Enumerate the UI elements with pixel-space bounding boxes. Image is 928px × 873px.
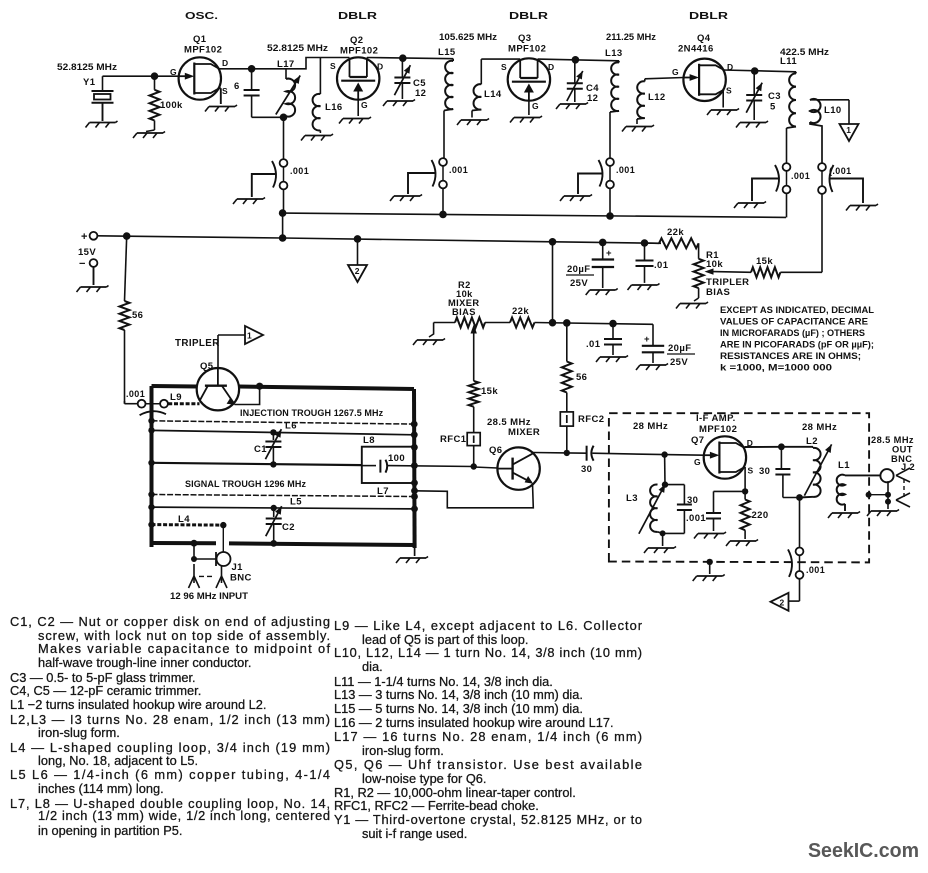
svg-text:iron-slug form.: iron-slug form. — [362, 743, 444, 758]
svg-text:INJECTION TROUGH 1267.5 MHz: INJECTION TROUGH 1267.5 MHz — [240, 408, 384, 418]
svg-text:L8: L8 — [363, 435, 375, 446]
svg-text:220: 220 — [752, 510, 769, 521]
label 422.5 MHz — [780, 47, 829, 58]
trough hatched line upper — [148, 418, 414, 425]
svg-text:12: 12 — [587, 93, 598, 104]
wire Q2 gate to ground — [357, 100, 359, 116]
ground for feedthrough DBLR4 — [734, 179, 780, 209]
feedthrough .001 DBLR3 — [599, 158, 636, 216]
inductor L2 variable — [781, 436, 831, 501]
svg-text:25V: 25V — [570, 278, 588, 289]
svg-text:Q7: Q7 — [691, 435, 704, 446]
svg-text:Q4: Q4 — [697, 33, 711, 44]
svg-text:S: S — [748, 466, 754, 476]
wire B+ distribution bus — [279, 209, 786, 238]
svg-text:G: G — [532, 101, 539, 111]
svg-text:5: 5 — [770, 102, 776, 113]
stage label DBLR 3 — [689, 11, 729, 22]
svg-text:10k: 10k — [706, 259, 723, 270]
wire Q1 drain node — [218, 65, 286, 73]
svg-text:100k: 100k — [160, 100, 183, 111]
svg-text:in opening in partition P5.: in opening in partition P5. — [38, 823, 182, 838]
svg-text:MPF102: MPF102 — [184, 45, 222, 56]
svg-text:L14: L14 — [484, 89, 502, 100]
feedthrough .001 DBLR2 — [432, 158, 469, 214]
inductor line L5 — [148, 497, 414, 512]
label SIGNAL TROUGH 1296 MHz — [185, 479, 306, 489]
svg-text:MIXER: MIXER — [508, 427, 540, 438]
svg-text:C4, C5 — 12-pF ceramic trimmer: C4, C5 — 12-pF ceramic trimmer. — [10, 683, 201, 698]
svg-text:12: 12 — [415, 88, 426, 99]
svg-text:422.5 MHz: 422.5 MHz — [780, 47, 829, 58]
svg-text:105.625 MHz: 105.625 MHz — [439, 32, 497, 43]
ground under R2 — [413, 339, 445, 346]
resistor 15k mixer — [469, 381, 499, 433]
coupling loop box L8 — [362, 435, 415, 483]
svg-text:.01: .01 — [654, 260, 669, 271]
svg-text:15k: 15k — [756, 256, 773, 267]
resistor 56 left — [120, 236, 144, 404]
svg-text:.001: .001 — [616, 165, 635, 175]
ground under C5 — [383, 100, 415, 107]
ground for feedthrough DBLR3 — [560, 174, 603, 202]
wire Q3 gate to ground — [528, 101, 530, 115]
svg-text:C2: C2 — [282, 522, 295, 533]
svg-text:22k: 22k — [667, 227, 684, 238]
wire Q3 source to L14 — [481, 58, 520, 60]
feedthrough .001 output — [788, 498, 825, 579]
svg-text:BNC: BNC — [230, 573, 252, 584]
svg-text:G: G — [361, 100, 368, 110]
capacitor C3 variable 5 — [746, 71, 781, 120]
svg-text:L16 — 2 turns insulated hookup: L16 — 2 turns insulated hookup wire arou… — [334, 715, 614, 730]
svg-text:OUT: OUT — [892, 445, 913, 455]
svg-text:.001: .001 — [686, 513, 706, 524]
wire gate Q7 — [661, 451, 704, 457]
label 1296 MHz INPUT — [170, 591, 248, 601]
choke RFC1 — [440, 433, 480, 467]
wire Q7 drain line — [745, 443, 785, 450]
svg-text:inches (114 mm) long.: inches (114 mm) long. — [38, 781, 164, 796]
inductor L3 variable — [626, 455, 668, 534]
connection triangle 1 down — [840, 124, 859, 141]
svg-text:L17 — 16 turns No. 28 enam, 1/: L17 — 16 turns No. 28 enam, 1/4 inch (6 … — [334, 729, 642, 744]
transistor Q1 MPF102 — [170, 34, 229, 100]
svg-text:DBLR: DBLR — [509, 11, 549, 22]
svg-text:Makes variable capacitance to: Makes variable capacitance to midpoint o… — [38, 641, 330, 656]
connection triangle 1 right — [218, 326, 263, 368]
svg-text:S: S — [222, 86, 228, 96]
svg-text:Y1: Y1 — [83, 77, 96, 88]
IF amplifier shield box dashed — [609, 413, 869, 562]
ground under 15V minus — [77, 286, 109, 293]
wire Q6 collector — [533, 450, 570, 456]
svg-text:L15: L15 — [438, 47, 456, 58]
feedthrough .001 L10 — [818, 163, 851, 272]
svg-text:+: + — [606, 248, 612, 259]
ground under .01 lower — [596, 356, 628, 363]
svg-text:dia.: dia. — [362, 659, 383, 674]
svg-text:.001: .001 — [449, 165, 468, 175]
feedthrough .001 DBLR4 — [775, 163, 810, 217]
capacitor .001 IF — [686, 491, 745, 531]
capacitor 20uF 25V upper — [566, 242, 614, 289]
inductor L13 — [605, 48, 623, 160]
transistor Q3 MPF102 — [501, 33, 555, 111]
svg-text:+: + — [644, 334, 650, 345]
label 52.8125 MHz input — [57, 62, 117, 73]
ground under 20uF upper — [586, 289, 618, 296]
svg-text:−: − — [79, 258, 86, 270]
label L7 — [377, 486, 389, 497]
svg-text:100: 100 — [388, 453, 405, 464]
svg-text:2N4416: 2N4416 — [678, 44, 714, 55]
connector J1 BNC — [191, 525, 252, 583]
transistor Q2 MPF102 — [330, 35, 384, 110]
svg-text:28.5 MHz: 28.5 MHz — [871, 435, 914, 445]
svg-text:ARE IN PICOFARADS (pF OR µµF);: ARE IN PICOFARADS (pF OR µµF); — [720, 340, 874, 350]
wire Q4 drain node — [723, 67, 796, 75]
ground under R1 — [676, 302, 708, 309]
choke RFC2 — [560, 412, 604, 453]
node +15V terminal — [78, 231, 97, 285]
svg-text:22k: 22k — [512, 306, 529, 317]
inductor L12 — [637, 79, 666, 124]
capacitor C1 variable — [254, 429, 281, 467]
inductor L10 — [810, 99, 849, 165]
svg-text:G: G — [170, 67, 177, 77]
ground under J2 — [867, 510, 899, 517]
label 28 MHz left — [633, 421, 668, 432]
ground on IF box bottom — [693, 559, 725, 581]
svg-text:MPF102: MPF102 — [699, 424, 737, 435]
trough right wall — [411, 389, 418, 548]
svg-text:low-noise type for Q6.: low-noise type for Q6. — [362, 771, 486, 786]
resistor 22k upper — [645, 227, 699, 259]
svg-text:TRIPLER: TRIPLER — [175, 338, 220, 349]
label 52.8125 MHz at L17 — [267, 43, 328, 54]
ground under 20uF lower — [636, 364, 668, 371]
svg-text:IN MICROFARADS (µF) ; OTHERS: IN MICROFARADS (µF) ; OTHERS — [720, 328, 865, 338]
capacitor C4 variable 12 — [567, 60, 599, 104]
svg-text:D: D — [377, 62, 384, 72]
svg-text:.001: .001 — [290, 166, 309, 176]
stage label DBLR — [338, 11, 378, 22]
label 211.25 MHz — [606, 32, 656, 43]
svg-text:30: 30 — [687, 495, 698, 506]
svg-text:52.8125 MHz: 52.8125 MHz — [267, 43, 328, 54]
svg-text:VALUES OF CAPACITANCE ARE: VALUES OF CAPACITANCE ARE — [720, 317, 868, 327]
svg-text:L15 — 5 turns No. 14, 3/8 inch: L15 — 5 turns No. 14, 3/8 inch (10 mm) d… — [334, 701, 583, 716]
ground under L1 — [828, 512, 860, 519]
potentiometer R1 10k — [694, 250, 751, 301]
label INJECTION TROUGH 1267.5 MHz — [240, 408, 384, 418]
capacitor 30 at L2 — [759, 447, 800, 498]
trough bottom wall — [152, 540, 415, 547]
wire crystal to gate — [103, 72, 179, 80]
wire Q7 source node — [742, 467, 748, 495]
injection trough left wall — [150, 386, 154, 547]
ground under Q2 gate — [339, 117, 371, 124]
svg-text:RFC2: RFC2 — [578, 414, 604, 425]
ground under 100k — [133, 132, 165, 139]
trough hatched line lower — [148, 491, 414, 497]
ground under Q4 source — [707, 109, 739, 116]
svg-text:Q5, Q6 — Uhf transistor. Use b: Q5, Q6 — Uhf transistor. Use best availa… — [334, 757, 642, 772]
capacitor 30 at L3 — [660, 485, 699, 546]
svg-text:D: D — [222, 58, 229, 68]
svg-text:L16: L16 — [325, 102, 343, 113]
ground under L12 — [622, 125, 654, 132]
label 28 MHz right — [802, 422, 837, 433]
capacitor 20uF 25V lower — [642, 324, 695, 368]
svg-text:L3: L3 — [626, 493, 638, 504]
svg-text:1: 1 — [846, 125, 851, 135]
label TRIPLER — [175, 338, 220, 349]
ground under .001 IF — [694, 532, 726, 539]
svg-text:(.001: (.001 — [829, 166, 852, 176]
svg-text:S: S — [501, 62, 507, 72]
svg-text:.001: .001 — [806, 565, 825, 575]
svg-text:Q6: Q6 — [489, 445, 502, 456]
ground for feedthrough L10 — [829, 179, 878, 211]
resistor 100k — [146, 76, 183, 131]
capacitor .01 upper — [636, 243, 669, 283]
crystal Y1 — [83, 76, 114, 121]
svg-text:30: 30 — [759, 466, 770, 477]
svg-text:1/2 inch (13 mm) wide, 1/2 inc: 1/2 inch (13 mm) wide, 1/2 inch long, ce… — [38, 808, 330, 823]
coupling loop L9 — [168, 392, 199, 404]
svg-text:15V: 15V — [78, 247, 96, 258]
ground under L14 — [457, 119, 489, 126]
wire base Q6 — [471, 463, 498, 469]
wire Q5 emitter to trough wall — [235, 383, 264, 405]
ground for feedthrough OSC — [233, 174, 277, 204]
capacitor C2 variable — [266, 506, 295, 547]
svg-text:RESISTANCES ARE IN OHMS;: RESISTANCES ARE IN OHMS; — [720, 351, 861, 361]
svg-text:MPF102: MPF102 — [340, 46, 378, 57]
svg-text:I-F AMP.: I-F AMP. — [696, 413, 736, 424]
transistor Q5 — [197, 361, 239, 410]
svg-text:SIGNAL TROUGH 1296 MHz: SIGNAL TROUGH 1296 MHz — [185, 479, 306, 489]
svg-text:BIAS: BIAS — [452, 307, 476, 317]
svg-text:MPF102: MPF102 — [508, 44, 546, 55]
inductor L14 — [472, 59, 502, 117]
ground under .01 upper — [628, 284, 660, 291]
svg-text:RFC1, RFC2 — Ferrite-bead chok: RFC1, RFC2 — Ferrite-bead choke. — [334, 798, 539, 813]
capacitor 100 — [362, 453, 474, 473]
svg-text:S: S — [726, 86, 732, 96]
svg-text:52.8125 MHz: 52.8125 MHz — [57, 62, 117, 73]
svg-text:56: 56 — [576, 372, 587, 383]
coupling loop L4 — [148, 514, 226, 528]
wire Q1 source to ground — [218, 88, 220, 104]
svg-text:L1 −2 turns insulated hookup w: L1 −2 turns insulated hookup wire around… — [10, 697, 266, 712]
ground under L16 — [301, 134, 333, 141]
svg-text:.01: .01 — [586, 339, 601, 350]
wire cap6 to L17 bottom — [252, 114, 288, 122]
inductor L11 — [780, 56, 797, 165]
svg-text:Q2: Q2 — [350, 35, 363, 46]
svg-text:L7: L7 — [377, 486, 389, 497]
svg-text:56: 56 — [132, 310, 143, 321]
label 28.5 MHz MIXER — [487, 417, 540, 438]
svg-text:L6: L6 — [285, 421, 297, 432]
svg-text:28 MHz: 28 MHz — [802, 422, 837, 433]
J1 ground pins — [189, 564, 228, 588]
svg-text:12 96 MHz INPUT: 12 96 MHz INPUT — [170, 591, 248, 601]
svg-text:C1: C1 — [254, 444, 267, 455]
stage label OSC. — [185, 11, 218, 22]
ground for feedthrough DBLR2 — [390, 173, 436, 201]
svg-text:.001: .001 — [791, 171, 810, 181]
svg-text:Q3: Q3 — [518, 33, 531, 44]
svg-text:J1: J1 — [232, 562, 244, 573]
svg-text:D: D — [548, 62, 555, 72]
capacitor .01 lower — [586, 324, 622, 355]
ground under Q1 source — [205, 105, 237, 112]
wire Q4 source to ground — [722, 90, 724, 108]
connection triangle 2 down — [348, 239, 367, 282]
resistor 220 — [741, 491, 769, 539]
ground under Q3 gate — [510, 116, 542, 123]
wire +15V bus — [98, 232, 661, 322]
feedthrough .001 tripler — [125, 389, 168, 420]
transistor Q4 2N4416 — [672, 33, 734, 101]
svg-text:DBLR: DBLR — [338, 11, 378, 22]
svg-text:1: 1 — [247, 331, 252, 341]
svg-text:DBLR: DBLR — [689, 11, 729, 22]
wire L17 to Q2 source — [286, 58, 349, 69]
component notes column 2 — [334, 618, 643, 841]
note text decimal values — [720, 305, 875, 373]
connection triangle 2 left — [771, 579, 800, 611]
svg-text:L1: L1 — [838, 460, 850, 471]
inductor L16 — [313, 58, 343, 134]
component notes column 1 — [10, 614, 330, 838]
svg-text:C1, C2 — Nut or copper disk on: C1, C2 — Nut or copper disk on end of ad… — [10, 614, 330, 629]
svg-text:half-wave trough-line inner co: half-wave trough-line inner conductor. — [38, 655, 251, 670]
inductor line L6 — [148, 421, 414, 436]
label I-F AMP MPF102 — [696, 413, 737, 435]
svg-text:28 MHz: 28 MHz — [633, 421, 668, 432]
wire mixer bias bus — [485, 322, 510, 324]
svg-text:iron-slug form.: iron-slug form. — [38, 725, 120, 740]
svg-text:L10: L10 — [824, 105, 842, 116]
inductor L1 — [837, 460, 883, 511]
svg-text:Y1 — Third-overtone crystal, 5: Y1 — Third-overtone crystal, 52.8125 MHz… — [334, 812, 642, 827]
svg-text:Q1: Q1 — [193, 34, 207, 45]
feedthrough .001 OSC — [272, 117, 309, 213]
inductor L15 — [438, 47, 456, 160]
svg-text:30: 30 — [581, 464, 592, 475]
svg-text:20µF: 20µF — [668, 343, 691, 354]
ground under 220 — [726, 540, 758, 547]
svg-text:L13: L13 — [605, 48, 623, 59]
ground under C3 — [736, 121, 768, 128]
resistor 22k mixer — [510, 306, 653, 328]
svg-text:L9: L9 — [170, 392, 182, 403]
svg-text:+: + — [81, 231, 88, 243]
transistor Q6 — [489, 445, 540, 490]
svg-text:20µF: 20µF — [567, 264, 590, 275]
label 28.5 MHz OUT BNC J2 — [871, 435, 915, 472]
svg-text:L13 — 3 turns No. 14, 3/8 inch: L13 — 3 turns No. 14, 3/8 inch (10 mm) d… — [334, 687, 583, 702]
svg-text:BIAS: BIAS — [706, 287, 730, 298]
svg-text:C3: C3 — [768, 91, 781, 102]
svg-text:L9 — Like L4, except adjacent: L9 — Like L4, except adjacent to L6. Col… — [334, 618, 643, 633]
svg-text:G: G — [694, 457, 701, 467]
capacitor 30 coupling — [567, 446, 665, 475]
svg-text:suit i-f range used.: suit i-f range used. — [362, 826, 467, 841]
resistor 15k right — [751, 256, 822, 277]
svg-text:RFC1: RFC1 — [440, 434, 467, 445]
trough line L7 feed — [148, 460, 361, 466]
injection trough top wall — [152, 386, 415, 389]
svg-text:G: G — [672, 67, 679, 77]
wire Q6 emitter loop — [415, 484, 534, 508]
svg-text:6: 6 — [234, 81, 240, 92]
label R2 10k MIXER BIAS — [448, 280, 479, 317]
svg-text:J 2: J 2 — [901, 462, 915, 472]
svg-text:.001: .001 — [126, 389, 145, 399]
resistor 56 right — [562, 323, 588, 412]
inductor L17 variable — [276, 59, 300, 117]
ground under Y1 — [86, 121, 118, 128]
capacitor 6 — [234, 69, 260, 118]
svg-text:2: 2 — [780, 597, 785, 607]
svg-text:L5: L5 — [290, 497, 302, 508]
svg-text:long, No. 18, adjacent to L5.: long, No. 18, adjacent to L5. — [38, 753, 198, 768]
potentiometer R2 10k — [429, 318, 485, 381]
svg-text:L12: L12 — [648, 92, 666, 103]
transistor Q7 MPF102 — [691, 435, 754, 479]
connector J2 BNC output — [866, 468, 910, 509]
svg-text:L2: L2 — [806, 436, 818, 447]
svg-text:L5 L6 — 1/4-inch (6 mm) copper: L5 L6 — 1/4-inch (6 mm) copper tubing, 4… — [10, 767, 330, 782]
label 105.625 MHz — [439, 32, 497, 43]
svg-text:L10, L12, L14 — 1 turn No. 14,: L10, L12, L14 — 1 turn No. 14, 3/8 inch … — [334, 645, 642, 660]
svg-text:OSC.: OSC. — [185, 11, 218, 22]
svg-text:2: 2 — [355, 266, 360, 276]
svg-text:k =1000, M=1000 000: k =1000, M=1000 000 — [720, 363, 832, 373]
watermark SeekIC.com — [808, 840, 919, 862]
svg-text:15k: 15k — [481, 386, 498, 397]
svg-text:211.25 MHz: 211.25 MHz — [606, 32, 656, 43]
stage label DBLR 2 — [509, 11, 549, 22]
ground under C4 — [556, 103, 588, 110]
label TRIPLER BIAS — [706, 277, 749, 298]
capacitor C5 variable 12 — [394, 58, 426, 99]
wire Q3 drain node — [538, 56, 619, 64]
wire L12 to Q4 gate — [645, 78, 684, 79]
svg-text:S: S — [330, 61, 336, 71]
ground under trough right wall — [396, 548, 428, 563]
ground under L3 — [644, 547, 676, 554]
wire Q2 drain node — [367, 54, 453, 62]
svg-text:SeekIC.com: SeekIC.com — [808, 840, 919, 862]
svg-text:25V: 25V — [670, 357, 688, 368]
svg-text:EXCEPT AS INDICATED, DECIMAL: EXCEPT AS INDICATED, DECIMAL — [720, 305, 875, 315]
